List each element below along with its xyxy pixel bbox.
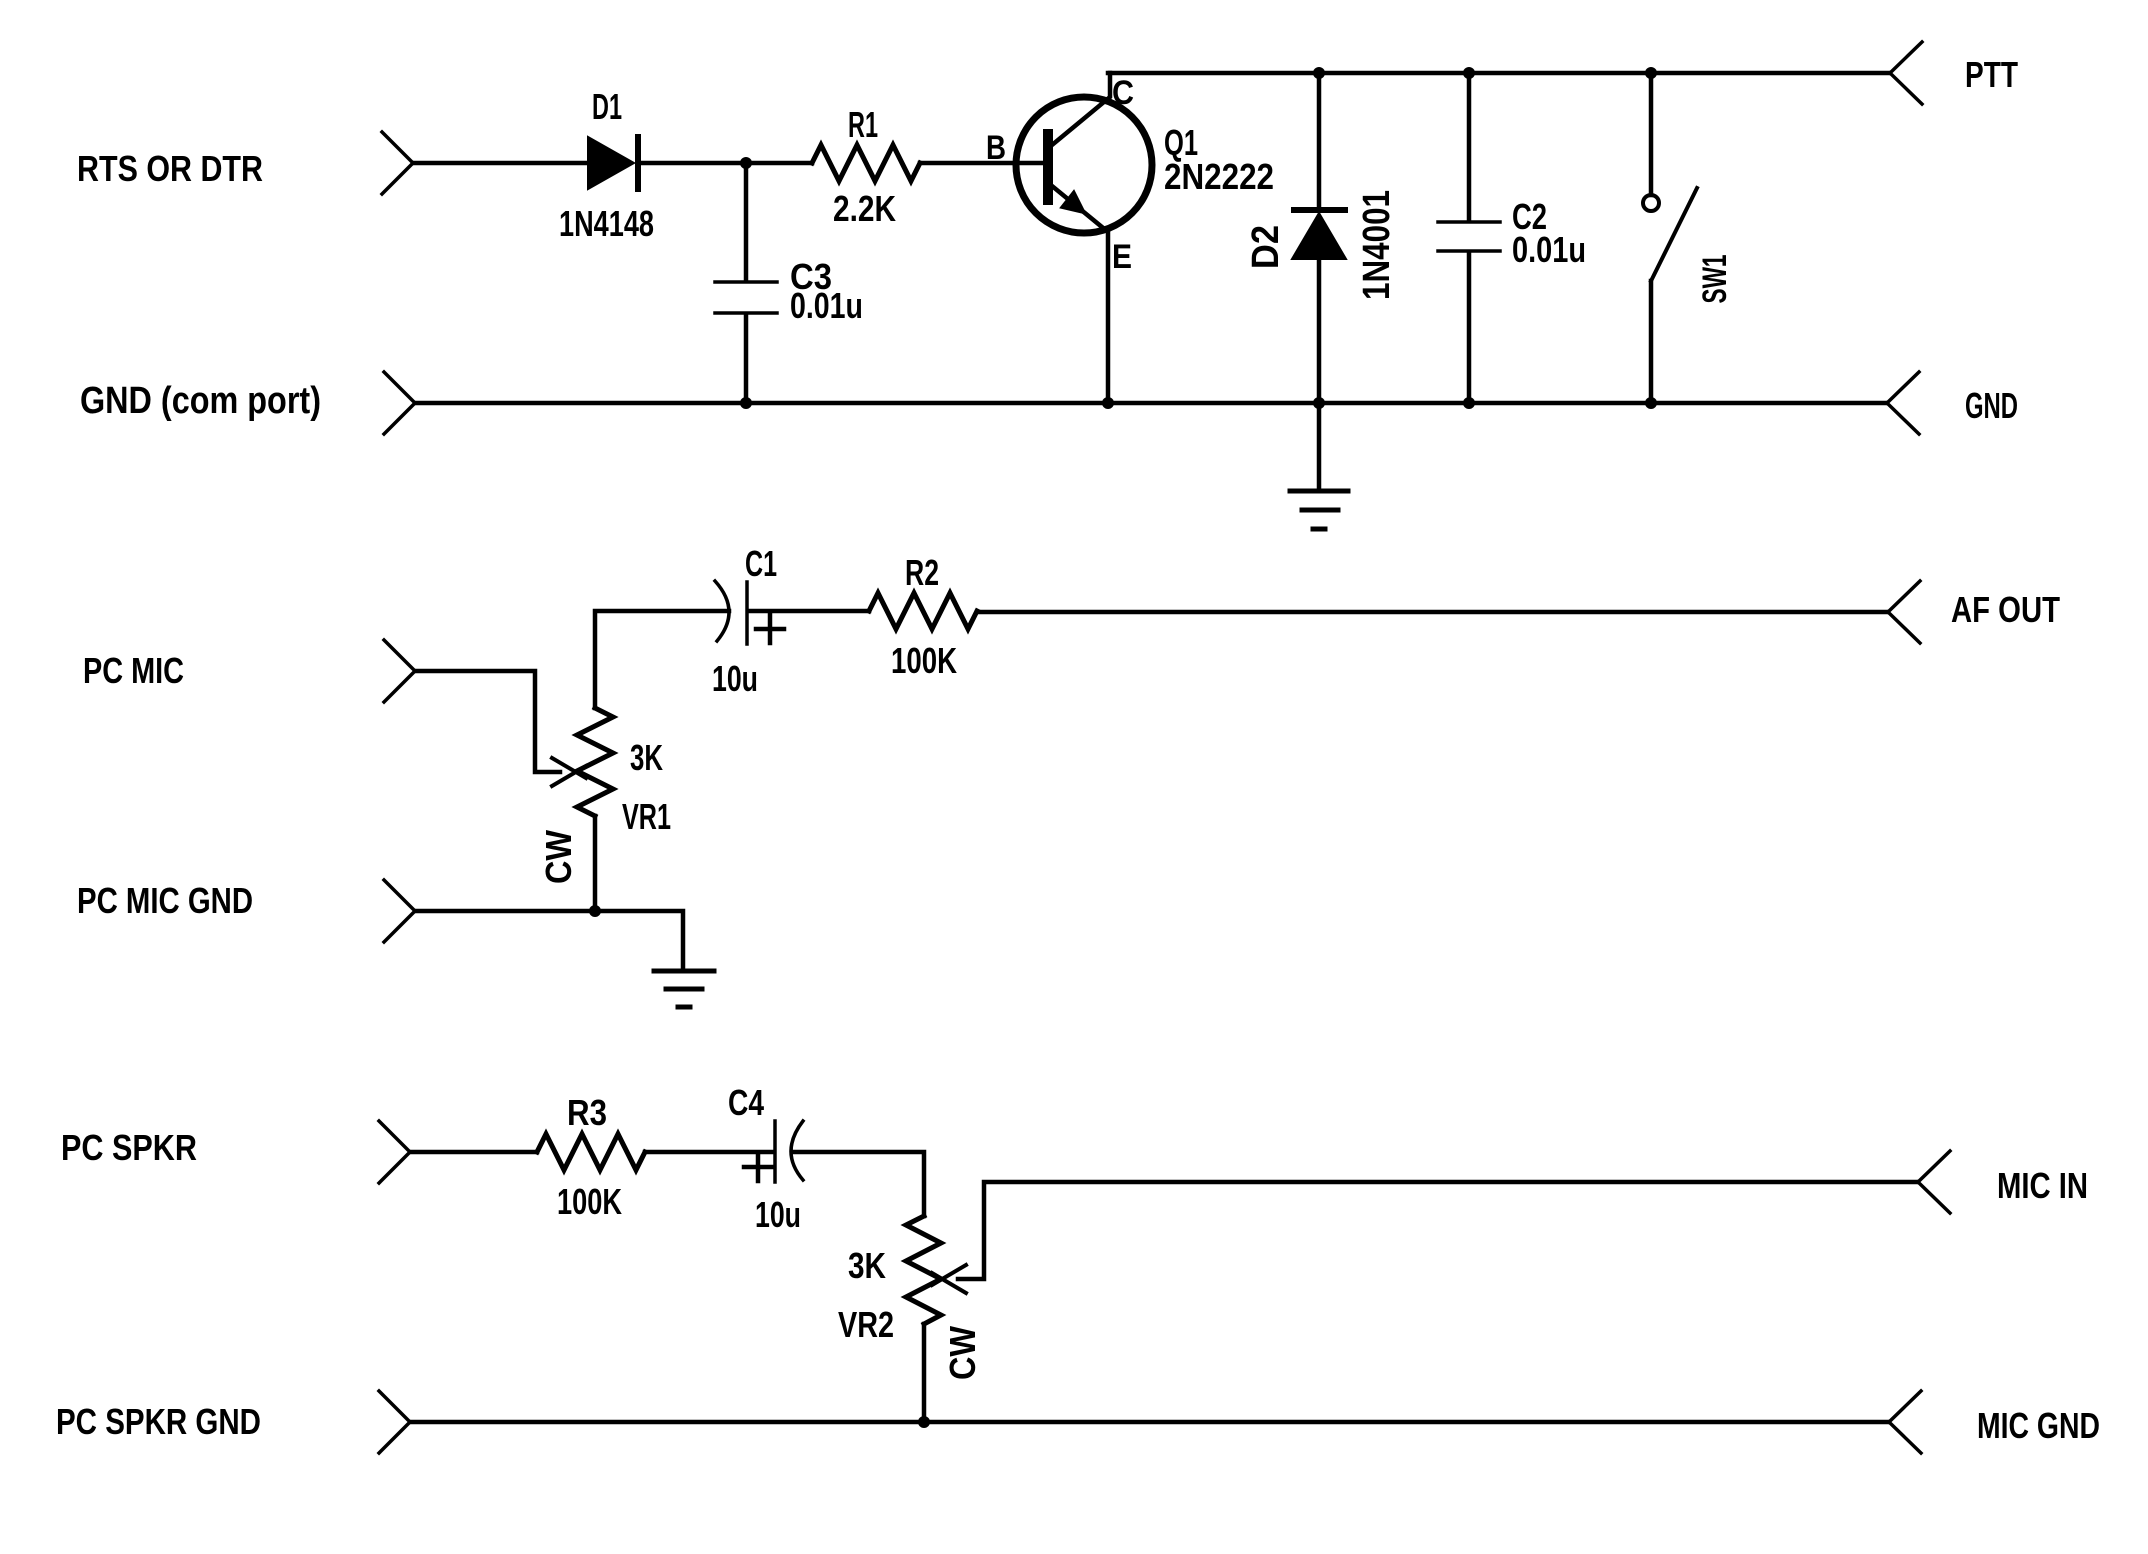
wire R2 to AF OUT bbox=[977, 610, 1888, 615]
svg-text:B: B bbox=[986, 129, 1006, 167]
svg-text:1N4001: 1N4001 bbox=[1356, 190, 1398, 300]
node junction dot C3 bottom bbox=[740, 397, 752, 409]
wire C1 to R2 bbox=[748, 609, 869, 614]
svg-text:100K: 100K bbox=[891, 640, 957, 681]
capacitor C4 plus sign bbox=[744, 1153, 772, 1181]
svg-text:PC SPKR: PC SPKR bbox=[61, 1127, 197, 1168]
svg-text:2.2K: 2.2K bbox=[833, 188, 896, 229]
potentiometer VR1 bbox=[577, 708, 613, 816]
svg-text:CW: CW bbox=[538, 830, 579, 884]
connector arrow PC SPKR bbox=[379, 1121, 410, 1183]
capacitor C1 straight plate bbox=[745, 582, 749, 644]
node junction dot VR1 bottom bbox=[589, 905, 601, 917]
node junction dot emitter bottom bbox=[1102, 397, 1114, 409]
connector arrow PC SPKR GND bbox=[379, 1391, 410, 1453]
connector arrow PTT bbox=[1890, 42, 1922, 104]
capacitor C3 lead bottom bbox=[744, 314, 749, 403]
wire GND rail bbox=[415, 401, 1887, 406]
transistor Q1 emitter arrow bbox=[1060, 190, 1086, 214]
capacitor C1 plus sign bbox=[756, 615, 784, 643]
connector arrow PC MIC GND bbox=[384, 880, 415, 942]
potentiometer VR2 wiper arrow bbox=[932, 1265, 966, 1293]
wire VR2 wiper to MIC IN bbox=[958, 1182, 1918, 1279]
connector arrow GND right bbox=[1887, 372, 1919, 434]
svg-text:C4: C4 bbox=[728, 1082, 764, 1123]
connector arrow MIC IN bbox=[1918, 1151, 1950, 1213]
node junction dot C2 top bbox=[1463, 67, 1475, 79]
diode D2 triangle bbox=[1292, 213, 1346, 259]
ground symbol below PC MIC GND bbox=[654, 971, 714, 1007]
wire C4 to VR2 bbox=[792, 1152, 924, 1216]
svg-text:VR1: VR1 bbox=[622, 796, 671, 837]
diode D2 cathode bar bbox=[1294, 207, 1345, 213]
svg-text:D2: D2 bbox=[1245, 225, 1287, 269]
svg-text:VR2: VR2 bbox=[838, 1304, 894, 1345]
svg-text:100K: 100K bbox=[557, 1181, 622, 1222]
svg-text:CW: CW bbox=[942, 1326, 983, 1380]
svg-text:C1: C1 bbox=[745, 543, 777, 584]
capacitor C1 curved plate bbox=[715, 581, 729, 641]
svg-text:PTT: PTT bbox=[1965, 54, 2018, 95]
connector arrow MIC GND bbox=[1889, 1391, 1921, 1453]
svg-text:3K: 3K bbox=[630, 737, 663, 778]
svg-text:GND (com port): GND (com port) bbox=[80, 380, 321, 422]
svg-text:R3: R3 bbox=[567, 1092, 607, 1133]
node junction dot VR2 bottom bbox=[918, 1416, 930, 1428]
resistor R1 bbox=[812, 145, 920, 181]
potentiometer VR2 bbox=[906, 1216, 941, 1324]
svg-text:MIC GND: MIC GND bbox=[1977, 1405, 2100, 1446]
capacitor C2 lead top bbox=[1467, 73, 1472, 221]
svg-text:3K: 3K bbox=[848, 1245, 886, 1286]
node junction dot at C3 top bbox=[740, 157, 752, 169]
wire RTS input to D1 bbox=[413, 161, 588, 166]
wire PC SPKR to R3 bbox=[410, 1150, 537, 1155]
connector arrow GND com port bbox=[384, 372, 415, 434]
diode D2 lead bottom bbox=[1317, 259, 1322, 491]
transistor Q1 collector stroke bbox=[1052, 73, 1110, 145]
svg-text:AF OUT: AF OUT bbox=[1951, 589, 2060, 630]
wire PC MIC to wiper bbox=[415, 671, 560, 772]
diode D2 lead top bbox=[1317, 73, 1322, 210]
diode D1 bbox=[588, 137, 638, 189]
svg-text:E: E bbox=[1112, 238, 1132, 276]
node junction dot SW1 top bbox=[1645, 67, 1657, 79]
ground symbol below D2 bbox=[1290, 491, 1348, 529]
node junction dot C2 bottom bbox=[1463, 397, 1475, 409]
switch SW1 blade bbox=[1651, 188, 1697, 281]
wire PTT rail bbox=[1108, 71, 1890, 76]
wire pot VR1 top bbox=[595, 611, 729, 911]
svg-text:10u: 10u bbox=[755, 1194, 801, 1235]
wire R1 to base bbox=[920, 161, 1043, 166]
transistor Q1 base bar bbox=[1043, 134, 1053, 200]
svg-text:R2: R2 bbox=[905, 552, 939, 593]
wire PC MIC GND bbox=[415, 911, 683, 971]
connector arrow PC MIC bbox=[384, 640, 415, 702]
wire D1 to R1 bbox=[641, 161, 812, 166]
capacitor C3 lead top bbox=[744, 163, 749, 281]
svg-text:1N4148: 1N4148 bbox=[559, 203, 654, 244]
svg-text:R1: R1 bbox=[848, 104, 878, 145]
svg-text:10u: 10u bbox=[712, 658, 758, 699]
svg-text:0.01u: 0.01u bbox=[1512, 229, 1586, 270]
svg-text:MIC IN: MIC IN bbox=[1997, 1165, 2088, 1206]
transistor Q1 emitter stroke bbox=[1052, 186, 1108, 403]
capacitor C3 plates bbox=[715, 282, 777, 313]
svg-text:PC MIC GND: PC MIC GND bbox=[77, 880, 253, 921]
svg-text:2N2222: 2N2222 bbox=[1164, 156, 1274, 197]
svg-text:SW1: SW1 bbox=[1696, 255, 1734, 304]
switch SW1 lead bottom bbox=[1649, 281, 1654, 403]
svg-text:D1: D1 bbox=[592, 86, 622, 127]
svg-text:PC SPKR GND: PC SPKR GND bbox=[56, 1401, 261, 1442]
wire VR2 bottom bbox=[922, 1324, 927, 1422]
transistor Q1 circle bbox=[1016, 97, 1152, 233]
capacitor C4 straight plate bbox=[773, 1121, 777, 1182]
svg-text:PC MIC: PC MIC bbox=[83, 650, 184, 691]
svg-text:0.01u: 0.01u bbox=[790, 285, 863, 326]
capacitor C2 lead bottom bbox=[1467, 252, 1472, 403]
capacitor C2 plates bbox=[1438, 222, 1500, 251]
svg-text:GND: GND bbox=[1965, 385, 2018, 426]
node junction dot D2 bottom bbox=[1313, 397, 1325, 409]
wire PC SPKR GND to MIC GND bbox=[410, 1420, 1889, 1425]
resistor R2 bbox=[869, 593, 977, 629]
node junction dot D2 top bbox=[1313, 67, 1325, 79]
capacitor C4 curved plate bbox=[791, 1121, 803, 1180]
switch SW1 lead top bbox=[1649, 73, 1654, 195]
wire R3 to C4 bbox=[645, 1150, 774, 1155]
svg-text:RTS OR DTR: RTS OR DTR bbox=[77, 148, 263, 189]
svg-text:C: C bbox=[1112, 74, 1134, 112]
switch SW1 contact circle bbox=[1643, 195, 1659, 211]
node junction dot SW1 bottom bbox=[1645, 397, 1657, 409]
connector arrow RTS OR DTR bbox=[382, 132, 413, 194]
resistor R3 bbox=[537, 1134, 645, 1170]
potentiometer VR1 wiper arrow bbox=[552, 758, 586, 786]
connector arrow AF OUT bbox=[1888, 581, 1920, 643]
